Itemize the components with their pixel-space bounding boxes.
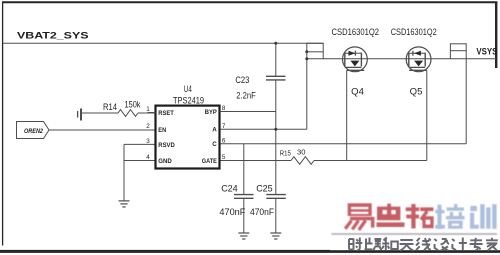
svg-text:470nF: 470nF [250,207,274,217]
svg-text:A: A [212,127,217,134]
svg-text:150k: 150k [125,100,141,110]
svg-text:EN: EN [158,127,166,134]
svg-text:3: 3 [146,138,150,145]
svg-text:C: C [212,141,217,148]
svg-text:CSD16301Q2: CSD16301Q2 [391,27,437,37]
svg-text:R14: R14 [103,102,117,112]
svg-text:8: 8 [222,105,226,112]
svg-text:470nF: 470nF [219,207,245,217]
svg-text:BYP: BYP [205,109,218,116]
svg-text:Q4: Q4 [351,86,364,96]
svg-text:RSET: RSET [158,110,174,117]
svg-text:C25: C25 [256,183,273,193]
svg-text:VSYS: VSYS [476,47,497,57]
svg-text:30: 30 [297,149,306,156]
svg-text:GND: GND [158,158,172,165]
svg-text:2.2nF: 2.2nF [236,90,256,100]
svg-text:7: 7 [222,123,226,130]
svg-text:2: 2 [146,123,150,130]
svg-text:4: 4 [146,154,150,161]
svg-text:6: 6 [222,138,226,145]
svg-text:RSVD: RSVD [158,142,175,149]
svg-text:U4: U4 [184,84,192,94]
svg-text:5: 5 [222,154,226,161]
svg-text:Q5: Q5 [410,86,423,96]
svg-text:C24: C24 [221,183,238,193]
svg-text:TPS2419: TPS2419 [173,96,204,106]
svg-text:R15: R15 [280,150,291,157]
svg-text:1: 1 [146,106,150,113]
svg-text:C23: C23 [235,75,249,85]
svg-text:CSD16301Q2: CSD16301Q2 [332,27,380,37]
svg-text:VBAT2_SYS: VBAT2_SYS [17,29,89,40]
svg-text:OREN2: OREN2 [24,129,44,135]
svg-text:GATE: GATE [202,158,218,165]
